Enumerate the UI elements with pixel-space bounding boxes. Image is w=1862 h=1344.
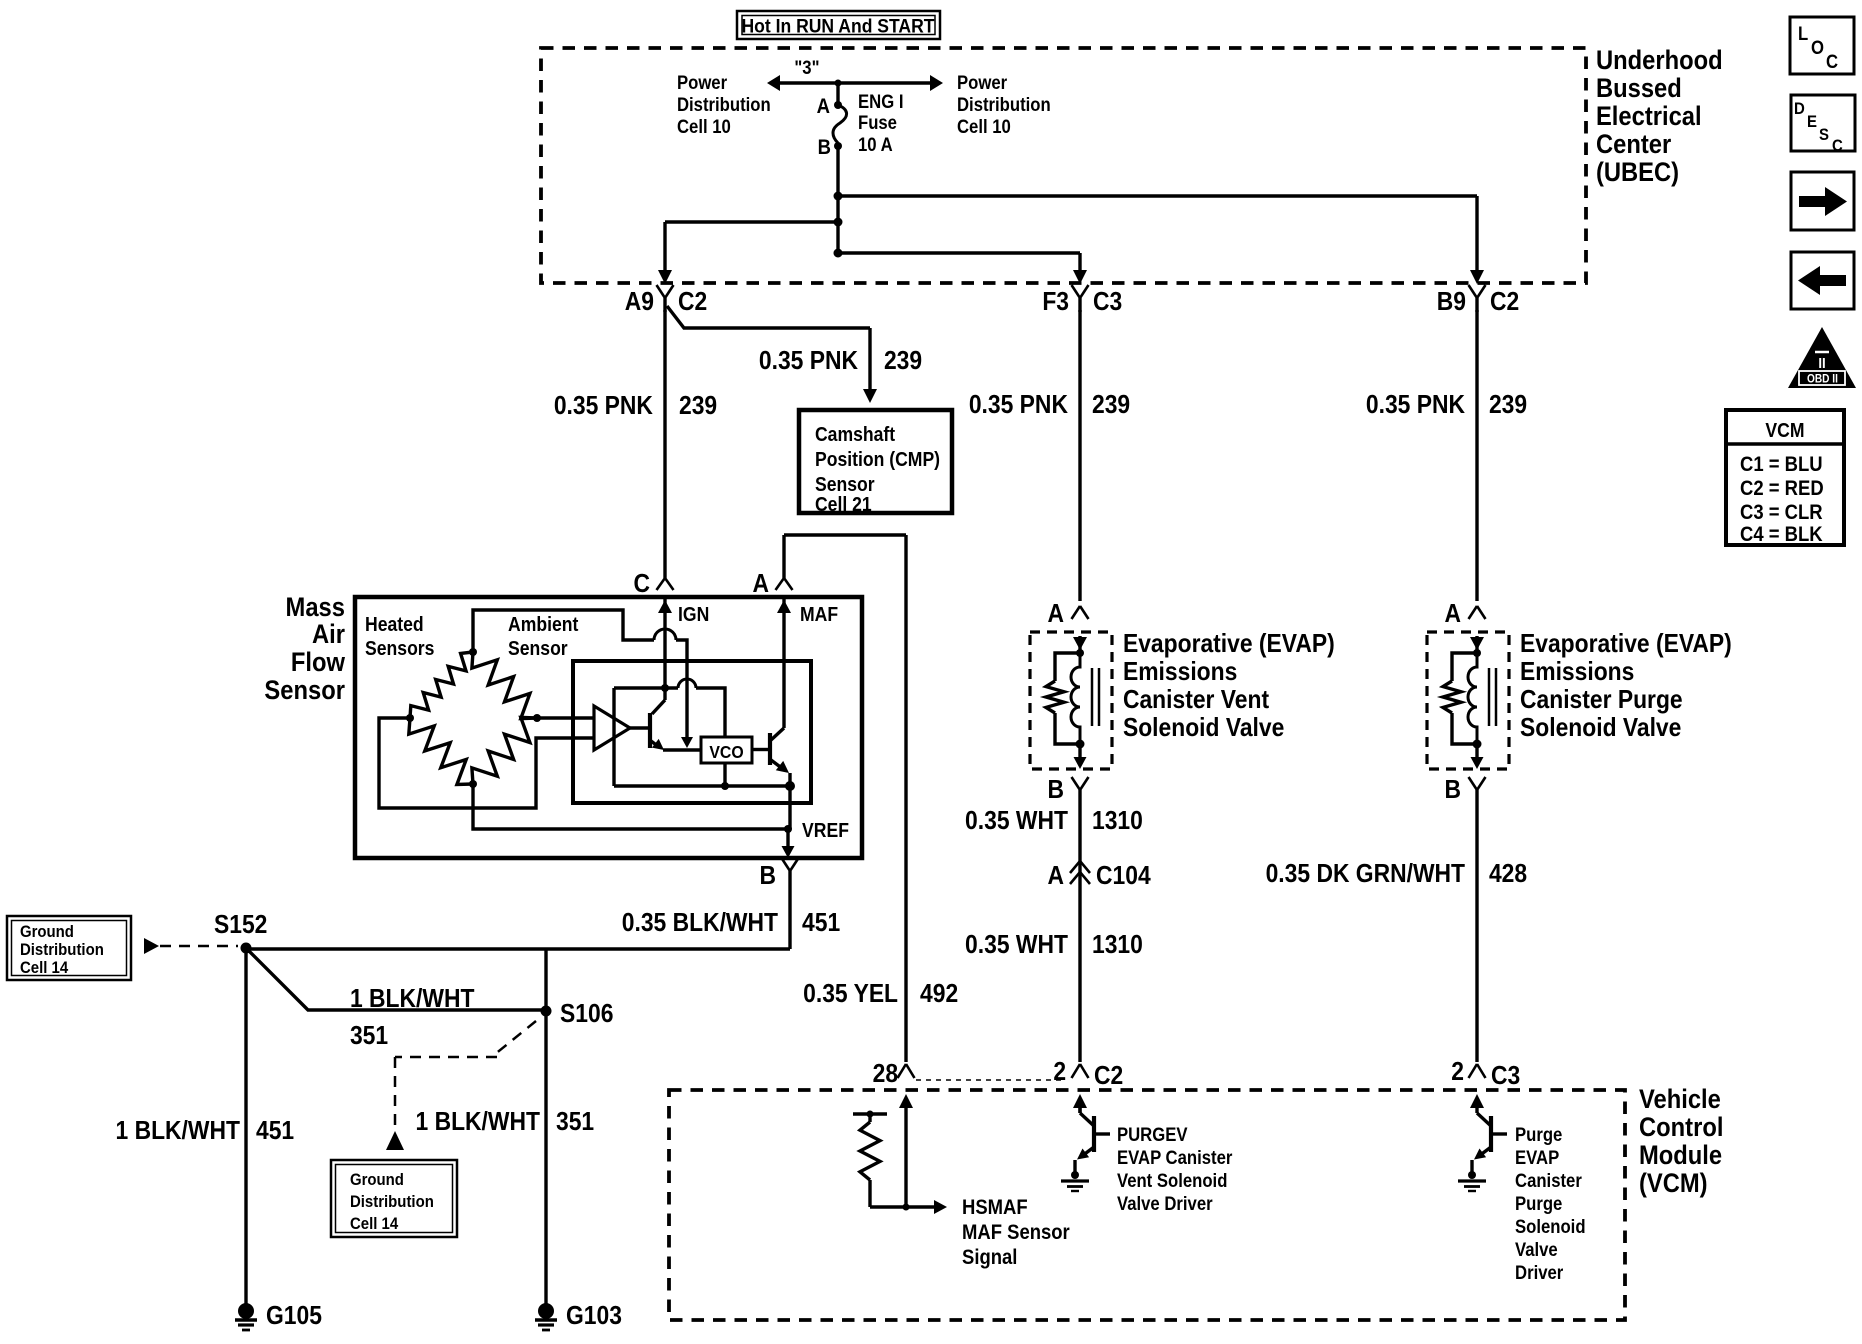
svg-text:C2: C2 (678, 288, 707, 317)
svg-text:0.35 DK GRN/WHT: 0.35 DK GRN/WHT (1266, 860, 1465, 889)
svg-text:B: B (1444, 776, 1461, 805)
svg-text:EVAP: EVAP (1515, 1147, 1559, 1168)
svg-text:L: L (1798, 23, 1808, 44)
svg-text:Purge: Purge (1515, 1193, 1562, 1214)
svg-text:C4 = BLK: C4 = BLK (1740, 523, 1823, 546)
svg-text:O: O (1811, 37, 1824, 58)
svg-text:Driver: Driver (1515, 1262, 1563, 1283)
svg-text:C3: C3 (1093, 288, 1122, 317)
svg-text:451: 451 (256, 1117, 294, 1146)
svg-text:C2 = RED: C2 = RED (1740, 477, 1824, 500)
svg-text:1 BLK/WHT: 1 BLK/WHT (416, 1108, 540, 1137)
svg-text:Canister Purge: Canister Purge (1520, 686, 1683, 715)
svg-text:Underhood: Underhood (1596, 46, 1723, 76)
svg-text:28: 28 (873, 1060, 898, 1089)
svg-text:Sensor: Sensor (815, 473, 875, 495)
svg-text:Camshaft: Camshaft (815, 423, 896, 445)
svg-text:F3: F3 (1042, 288, 1069, 317)
svg-text:Cell 14: Cell 14 (350, 1215, 398, 1233)
svg-text:Ground: Ground (350, 1171, 404, 1189)
svg-text:0.35 WHT: 0.35 WHT (965, 931, 1068, 960)
svg-text:G103: G103 (566, 1302, 622, 1331)
svg-text:0.35 BLK/WHT: 0.35 BLK/WHT (622, 909, 778, 938)
svg-text:1310: 1310 (1092, 807, 1143, 836)
svg-text:Control: Control (1639, 1113, 1723, 1143)
svg-text:Cell 21: Cell 21 (815, 493, 872, 515)
svg-text:Emissions: Emissions (1123, 658, 1237, 687)
svg-text:0.35 PNK: 0.35 PNK (554, 392, 653, 421)
svg-text:Bussed: Bussed (1596, 74, 1682, 104)
svg-text:Distribution: Distribution (350, 1193, 434, 1211)
svg-text:C: C (1832, 137, 1843, 155)
svg-text:A: A (1047, 600, 1064, 629)
svg-text:239: 239 (679, 392, 717, 421)
svg-text:Mass: Mass (286, 593, 345, 623)
svg-text:MAF: MAF (800, 603, 838, 625)
svg-text:PURGEV: PURGEV (1117, 1124, 1188, 1145)
svg-text:239: 239 (884, 347, 922, 376)
svg-text:Canister: Canister (1515, 1170, 1582, 1191)
svg-text:B: B (818, 136, 831, 159)
svg-text:Heated: Heated (365, 613, 424, 635)
svg-text:Solenoid Valve: Solenoid Valve (1520, 714, 1681, 743)
svg-text:Cell 10: Cell 10 (957, 116, 1011, 137)
svg-text:A9: A9 (625, 288, 654, 317)
svg-text:D: D (1794, 100, 1805, 118)
svg-text:Position (CMP): Position (CMP) (815, 448, 940, 470)
svg-text:II: II (1818, 354, 1825, 371)
svg-text:239: 239 (1489, 391, 1527, 420)
svg-text:Evaporative (EVAP): Evaporative (EVAP) (1520, 630, 1732, 659)
svg-text:MAF Sensor: MAF Sensor (962, 1221, 1070, 1244)
svg-text:A: A (1444, 600, 1461, 629)
svg-text:E: E (1807, 113, 1817, 131)
svg-text:Distribution: Distribution (20, 941, 104, 959)
svg-text:2: 2 (1053, 1058, 1066, 1087)
svg-text:Ground: Ground (20, 923, 74, 941)
svg-text:C3: C3 (1491, 1062, 1520, 1091)
svg-text:0.35 PNK: 0.35 PNK (969, 391, 1068, 420)
svg-text:VCO: VCO (709, 742, 743, 762)
svg-text:"3": "3" (794, 57, 819, 78)
svg-text:Solenoid: Solenoid (1515, 1216, 1586, 1237)
svg-text:Center: Center (1596, 130, 1671, 160)
svg-text:Power: Power (957, 72, 1007, 93)
svg-text:IGN: IGN (678, 603, 709, 625)
svg-text:C104: C104 (1096, 862, 1151, 891)
svg-text:0.35 YEL: 0.35 YEL (803, 980, 898, 1009)
svg-text:Fuse: Fuse (858, 112, 897, 133)
svg-text:C3 = CLR: C3 = CLR (1740, 501, 1823, 524)
svg-text:Hot In RUN And START: Hot In RUN And START (741, 15, 935, 37)
svg-text:Electrical: Electrical (1596, 102, 1702, 132)
svg-text:Valve Driver: Valve Driver (1117, 1193, 1213, 1214)
svg-text:Solenoid Valve: Solenoid Valve (1123, 714, 1284, 743)
svg-text:Distribution: Distribution (957, 94, 1051, 115)
svg-text:HSMAF: HSMAF (962, 1196, 1028, 1219)
svg-text:Sensors: Sensors (365, 637, 434, 659)
svg-text:VREF: VREF (802, 819, 849, 841)
svg-text:428: 428 (1489, 860, 1527, 889)
svg-text:C2: C2 (1094, 1062, 1123, 1091)
svg-text:0.35 PNK: 0.35 PNK (1366, 391, 1465, 420)
svg-text:Ambient: Ambient (508, 613, 579, 635)
svg-text:0.35 WHT: 0.35 WHT (965, 807, 1068, 836)
svg-text:VCM: VCM (1765, 419, 1804, 441)
svg-text:2: 2 (1451, 1058, 1464, 1087)
svg-text:Cell 14: Cell 14 (20, 959, 68, 977)
svg-text:Distribution: Distribution (677, 94, 771, 115)
svg-text:B: B (1047, 776, 1064, 805)
svg-text:C: C (633, 570, 650, 599)
svg-text:OBD II: OBD II (1807, 373, 1838, 386)
svg-text:Air: Air (312, 620, 345, 650)
svg-text:S: S (1819, 126, 1829, 144)
svg-text:Flow: Flow (291, 648, 345, 678)
svg-text:239: 239 (1092, 391, 1130, 420)
svg-text:S152: S152 (214, 911, 267, 940)
svg-text:Sensor: Sensor (264, 676, 345, 706)
svg-text:(VCM): (VCM) (1639, 1169, 1708, 1199)
svg-text:A: A (817, 95, 830, 118)
svg-text:10 A: 10 A (858, 134, 893, 155)
svg-text:A: A (1047, 862, 1064, 891)
svg-text:Purge: Purge (1515, 1124, 1562, 1145)
svg-text:G105: G105 (266, 1302, 322, 1331)
svg-text:Power: Power (677, 72, 727, 93)
svg-text:B9: B9 (1437, 288, 1466, 317)
svg-text:1310: 1310 (1092, 931, 1143, 960)
svg-text:C1 = BLU: C1 = BLU (1740, 453, 1823, 476)
svg-text:Module: Module (1639, 1141, 1722, 1171)
svg-text:Vent Solenoid: Vent Solenoid (1117, 1170, 1227, 1191)
svg-text:351: 351 (350, 1022, 388, 1051)
svg-text:1 BLK/WHT: 1 BLK/WHT (116, 1117, 240, 1146)
svg-text:Evaporative (EVAP): Evaporative (EVAP) (1123, 630, 1335, 659)
svg-text:Sensor: Sensor (508, 637, 568, 659)
svg-text:C: C (1826, 51, 1838, 72)
svg-text:492: 492 (920, 980, 958, 1009)
svg-text:Canister Vent: Canister Vent (1123, 686, 1269, 715)
svg-text:B: B (759, 862, 776, 891)
svg-text:EVAP Canister: EVAP Canister (1117, 1147, 1232, 1168)
svg-text:Cell 10: Cell 10 (677, 116, 731, 137)
svg-text:C2: C2 (1490, 288, 1519, 317)
svg-text:Valve: Valve (1515, 1239, 1558, 1260)
svg-text:Emissions: Emissions (1520, 658, 1634, 687)
svg-text:351: 351 (556, 1108, 594, 1137)
svg-text:0.35 PNK: 0.35 PNK (759, 347, 858, 376)
svg-text:(UBEC): (UBEC) (1596, 158, 1679, 188)
svg-text:A: A (753, 570, 770, 599)
svg-text:S106: S106 (560, 1000, 613, 1029)
svg-text:451: 451 (802, 909, 840, 938)
svg-text:1 BLK/WHT: 1 BLK/WHT (350, 985, 474, 1014)
svg-text:ENG I: ENG I (858, 91, 903, 112)
svg-text:Signal: Signal (962, 1246, 1017, 1269)
svg-text:Vehicle: Vehicle (1639, 1085, 1721, 1115)
